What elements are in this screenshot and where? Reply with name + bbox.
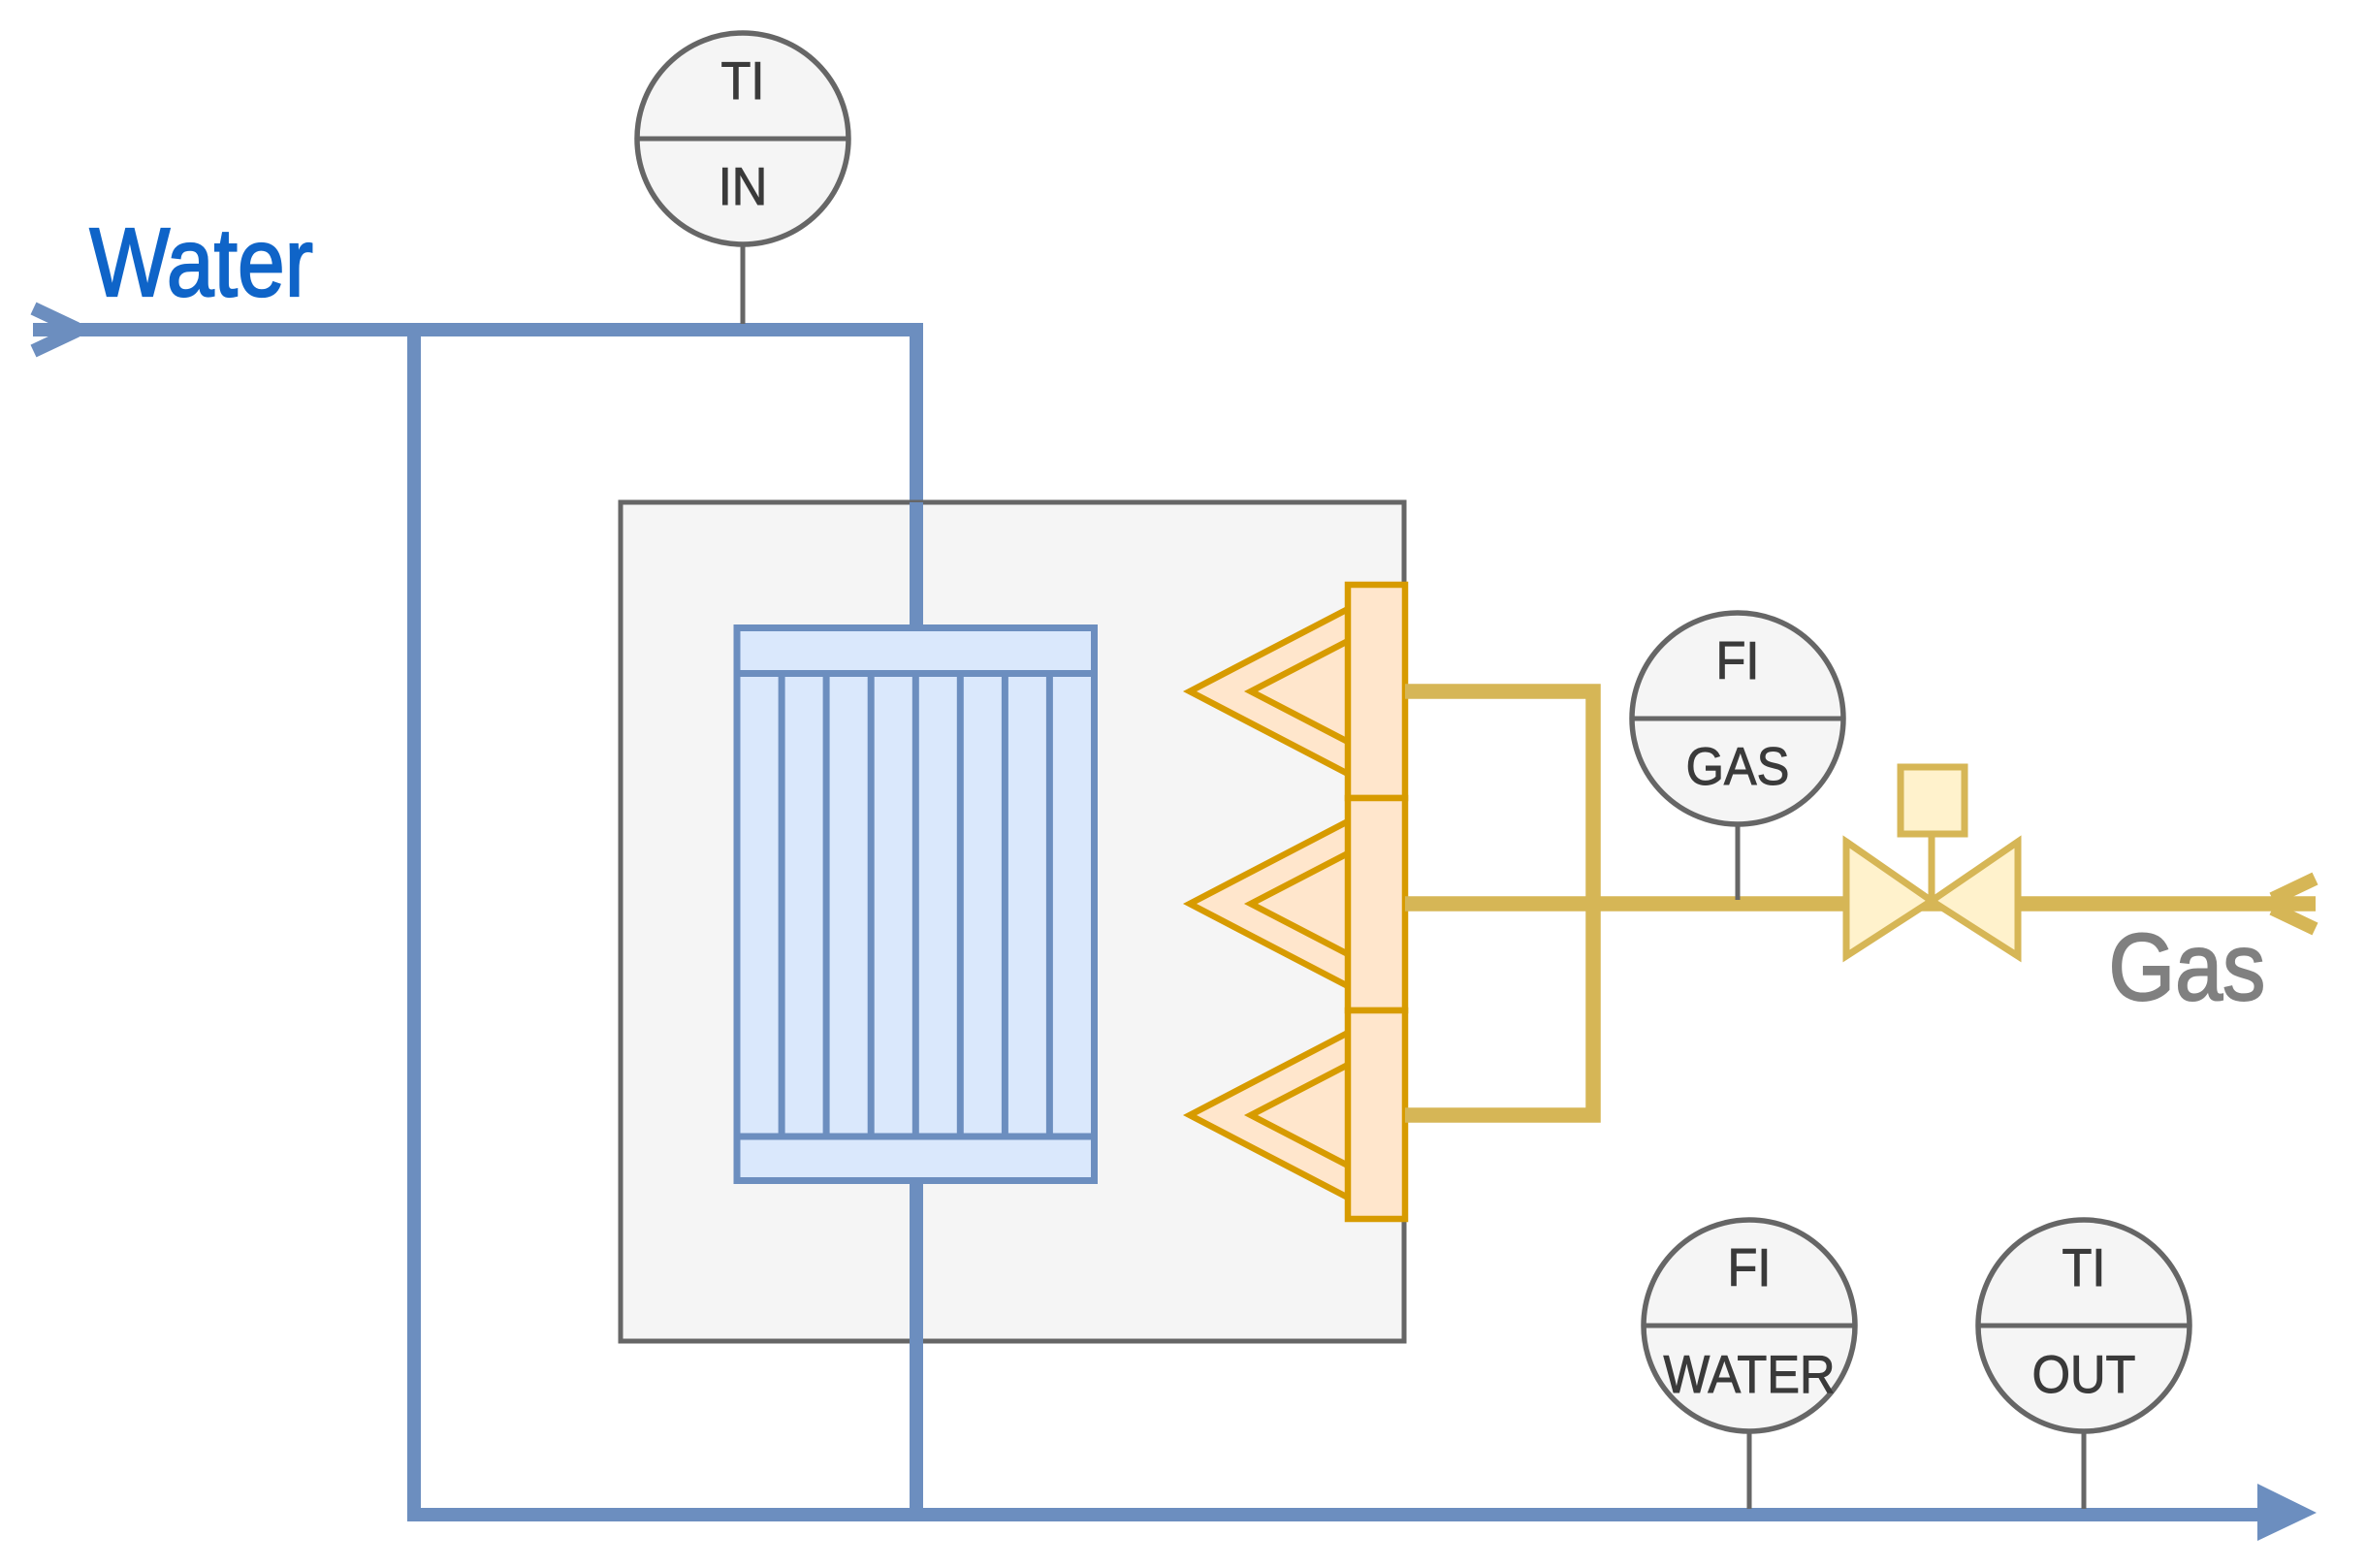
wire gas main line xyxy=(1405,896,2316,912)
instrument FI GAS xyxy=(1632,613,1843,824)
wire water inlet line into furnace xyxy=(33,330,916,640)
water inlet open arrow xyxy=(34,308,78,329)
burner flame 1 outer xyxy=(1190,607,1352,776)
outlet flow arrowhead xyxy=(2257,1484,2317,1541)
svg-text:FI: FI xyxy=(1728,1238,1772,1297)
burner flame 2 outer xyxy=(1190,819,1352,988)
burner flame 3 inner xyxy=(1251,1063,1352,1168)
svg-text:Water: Water xyxy=(90,208,313,317)
svg-text:TI: TI xyxy=(2062,1238,2106,1297)
valve stem xyxy=(1929,834,1935,901)
burner flame 2 inner xyxy=(1251,851,1352,956)
wire water bypass vertical + bottom outlet line xyxy=(414,330,2259,1515)
instrument stem TI IN xyxy=(741,245,746,324)
heat exchanger tube bundle xyxy=(737,628,1095,1181)
furnace box xyxy=(621,502,1404,1341)
wire HX inlet pipe inside furnace xyxy=(910,502,923,640)
instrument stem FI GAS xyxy=(1736,825,1741,900)
svg-text:IN: IN xyxy=(719,157,768,216)
burner flame 1 inner xyxy=(1251,639,1352,744)
burner flame 3 outer xyxy=(1190,1031,1352,1200)
burner strip segment 2 xyxy=(1348,798,1405,1010)
svg-text:TI: TI xyxy=(721,51,765,111)
burner strip segment 1 xyxy=(1348,585,1405,798)
svg-text:WATER: WATER xyxy=(1663,1345,1835,1404)
gas inlet open arrow xyxy=(2273,879,2316,899)
instrument FI WATER xyxy=(1644,1220,1855,1431)
svg-text:Gas: Gas xyxy=(2109,914,2266,1020)
svg-text:OUT: OUT xyxy=(2032,1345,2136,1404)
valve actuator square xyxy=(1901,767,1965,834)
valve body left xyxy=(1846,842,1932,956)
instrument TI OUT xyxy=(1978,1220,2190,1431)
valve body right xyxy=(1932,842,2018,956)
instrument TI IN xyxy=(637,33,848,244)
instrument stem FI WATER xyxy=(1747,1429,1752,1509)
burner strip segment 3 xyxy=(1348,1010,1405,1219)
svg-text:GAS: GAS xyxy=(1686,737,1790,796)
instrument stem TI OUT xyxy=(2082,1429,2087,1509)
svg-text:FI: FI xyxy=(1716,631,1760,690)
wire HX outlet pipe down through furnace wall xyxy=(910,1178,923,1515)
wire gas manifold xyxy=(1405,691,1593,1115)
